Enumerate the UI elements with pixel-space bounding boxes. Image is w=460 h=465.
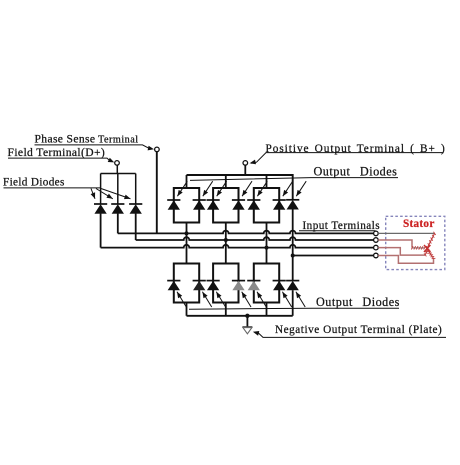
negative rectifier box L2 <box>213 264 238 303</box>
stator wire to terminal 1 <box>378 232 434 234</box>
label Positive Output Terminal (B+) <box>250 143 446 165</box>
field diode FD3 <box>129 204 142 213</box>
arrow to output diode D8 <box>177 292 186 307</box>
stator winding coil 2 <box>411 246 425 250</box>
output diode D2 <box>193 200 206 209</box>
label Phase Sense Terminal <box>35 133 155 151</box>
wire B+ to box2 <box>225 175 227 188</box>
stator wire to terminal 3 <box>378 248 425 256</box>
output diode D6 <box>273 200 286 209</box>
arrow to output diode D10 <box>216 292 225 307</box>
wire field diode riser 3 <box>135 174 137 205</box>
arrow to output diode D7 <box>296 181 306 196</box>
output diode D13 <box>273 281 286 290</box>
output diode D7 <box>286 200 299 209</box>
wire B+ to box3 <box>266 175 268 188</box>
wire phase sense to bus L1 <box>156 152 158 234</box>
output diode D12 <box>247 281 260 290</box>
wire FD1 to bus L3 <box>100 213 102 247</box>
arrow to output diode D11 <box>242 292 251 307</box>
wire B+ bus <box>187 175 293 199</box>
wire FD2 to bus L1 <box>117 213 119 233</box>
positive rectifier box U3 <box>254 188 279 223</box>
arrow to output diode D14 <box>296 292 305 307</box>
arrow to output diode D9 <box>202 292 211 307</box>
stator wire to terminal 4 <box>378 256 433 264</box>
input terminal 3 <box>374 245 379 250</box>
wire phase bus L3 <box>101 245 374 248</box>
arrow to output diode D2 <box>203 181 213 196</box>
junction L4-column4 <box>291 254 295 258</box>
wire field diode riser 2 <box>117 174 119 205</box>
wire ground stub <box>246 316 248 327</box>
arrow to output diode D3 <box>217 181 227 196</box>
svg-text:Output Diodes: Output Diodes <box>316 295 400 309</box>
svg-text:Negative Output Terminal (Plat: Negative Output Terminal (Plate) <box>275 324 442 336</box>
svg-text:Phase Sense: Phase Sense <box>35 133 96 146</box>
stator winding center node <box>424 245 430 252</box>
label Field Terminal (D+) <box>8 146 115 162</box>
wire B+ stub <box>244 165 246 175</box>
stator winding coil 4 (to neutral) <box>424 248 429 256</box>
stator winding coil 3 <box>426 249 436 258</box>
output diode D9 <box>193 281 206 290</box>
arrow to output diode D12 <box>257 292 266 307</box>
svg-text:Terminal: Terminal <box>98 134 139 145</box>
wire lower box3 to ground bus <box>266 303 268 316</box>
input terminal 2 <box>374 238 379 243</box>
output diode D1 <box>167 200 180 209</box>
label Stator <box>403 218 435 230</box>
wire lower box2 to ground bus <box>225 303 227 316</box>
svg-text:Output Diodes: Output Diodes <box>314 164 398 178</box>
arrow to output diode D6 <box>283 181 293 196</box>
junction ground stub <box>245 314 249 318</box>
wire phase bus L4 <box>293 255 374 257</box>
input terminal 4 <box>374 253 379 258</box>
svg-text:Field Diodes: Field Diodes <box>3 177 65 189</box>
wire phase bus L2 <box>136 237 374 240</box>
field diode FD2 <box>111 204 124 213</box>
label Field Diodes <box>3 177 131 200</box>
label Input Terminals <box>299 220 380 232</box>
negative rectifier box L1 <box>174 264 199 303</box>
positive output terminal B+ <box>243 161 248 166</box>
svg-text:Stator: Stator <box>403 218 435 230</box>
negative rectifier box L3 <box>254 264 279 303</box>
wire D14 to ground bus <box>292 290 294 316</box>
label Negative Output Terminal (Plate) <box>253 324 446 337</box>
svg-text:Field Terminal(D+): Field Terminal(D+) <box>8 146 106 159</box>
label Output Diodes (bottom) <box>189 295 400 309</box>
phase sense terminal <box>155 147 160 152</box>
output diode D14 <box>286 281 299 290</box>
arrow to output diode D1 <box>177 181 187 196</box>
junction L3-column3 <box>265 246 269 250</box>
arrow to output diode D4 <box>242 181 252 196</box>
wire lower box1 to ground bus <box>186 303 188 316</box>
junction L2-column2 <box>224 238 228 242</box>
output diode D5 <box>247 200 260 209</box>
stator winding coil 1 <box>426 232 435 249</box>
wire field terminal stub <box>116 165 118 173</box>
ground symbol (negative output terminal) <box>242 327 252 334</box>
stator wire to terminal 2 <box>378 240 412 248</box>
wire column2 <box>225 223 227 264</box>
arrow to output diode D5 <box>257 181 267 196</box>
positive rectifier box U1 <box>174 188 199 223</box>
wire B+ to box1 <box>186 175 188 188</box>
wire column4 <box>292 209 294 280</box>
wire FD3 to bus L2 <box>135 213 137 240</box>
output diode D10 <box>207 281 220 290</box>
input terminal 1 <box>374 231 379 236</box>
output diode D4 <box>232 200 245 209</box>
wire field diode riser 1 <box>100 174 102 205</box>
junction L1-column1 <box>185 231 189 235</box>
stator box <box>386 216 445 269</box>
wire field diode bus <box>101 173 136 175</box>
field terminal D+ <box>115 161 120 166</box>
svg-text:Input Terminals: Input Terminals <box>303 220 381 232</box>
wire column3 <box>266 223 268 264</box>
output diode D3 <box>207 200 220 209</box>
wire phase bus L1 <box>118 231 374 234</box>
wire ground bus <box>187 315 293 317</box>
wire column1 <box>186 223 188 264</box>
field diode FD1 <box>94 204 107 213</box>
positive rectifier box U2 <box>213 188 238 223</box>
output diode D11 <box>232 281 245 290</box>
label Output Diodes (top) <box>190 164 398 180</box>
output diode D8 <box>167 281 180 290</box>
arrow to output diode D13 <box>282 292 291 307</box>
